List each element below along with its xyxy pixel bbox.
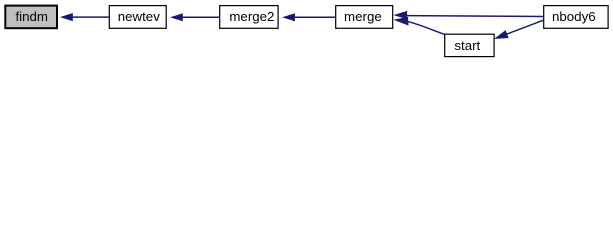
- node merge: [336, 6, 393, 29]
- node start: [445, 34, 494, 56]
- svg-text:nbody6: nbody6: [552, 9, 596, 24]
- edge nbody6->start: [496, 20, 544, 38]
- edge start->merge: [395, 18, 444, 35]
- edge merge2->newtev: [172, 14, 220, 21]
- svg-text:merge2: merge2: [229, 9, 274, 24]
- svg-text:merge: merge: [344, 9, 382, 24]
- edge merge->merge2: [284, 14, 336, 21]
- svg-text:newtev: newtev: [118, 9, 160, 24]
- edge newtev->findm: [62, 14, 109, 21]
- svg-text:start: start: [454, 38, 480, 53]
- node newtev: [109, 6, 166, 29]
- node merge2: [220, 6, 278, 29]
- edge nbody6->merge: [395, 12, 543, 19]
- node nbody6: [544, 6, 608, 29]
- svg-text:findm: findm: [15, 9, 48, 24]
- node findm (focal, grey): [5, 6, 57, 29]
